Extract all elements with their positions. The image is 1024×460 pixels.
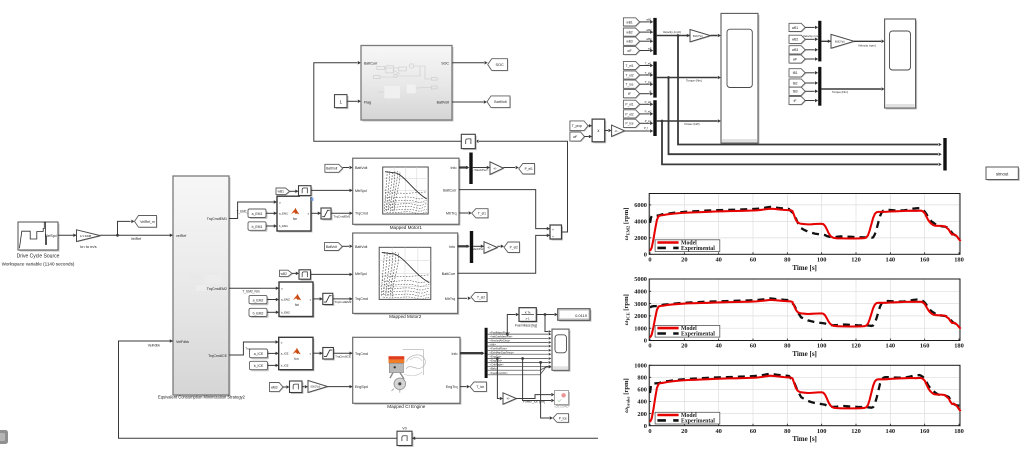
from tags wB1 wB2 wB3 wF (scope1 velocity inputs) <box>623 18 653 56</box>
subsystem Equivalent Consumption Minimization Strategy2 <box>158 176 246 399</box>
svg-text:1000: 1000 <box>634 325 647 332</box>
svg-text:80: 80 <box>784 428 790 435</box>
svg-text:1000: 1000 <box>634 362 647 369</box>
mux bar velocity scope2 <box>818 21 821 62</box>
svg-text:a_EM1: a_EM1 <box>279 212 288 216</box>
svg-text:<ExhManGasTemp>: <ExhManGasTemp> <box>490 350 515 354</box>
svg-text:T_el1: T_el1 <box>478 212 486 216</box>
mux bar power scope1 <box>653 100 656 136</box>
svg-text:P_f: P_f <box>644 126 648 130</box>
svg-text:kn to m/s: kn to m/s <box>80 244 96 249</box>
svg-text:BattVolt: BattVolt <box>355 166 367 170</box>
memory block after wB1 <box>299 186 314 201</box>
svg-text:TrqCmdICE: TrqCmdICE <box>335 355 351 359</box>
from tag wB1 <box>276 188 299 195</box>
svg-text:VelFdbk: VelFdbk <box>148 344 161 348</box>
svg-text:120: 120 <box>851 257 861 264</box>
from tags P_el1 P_el2 P_ice (scope1 power inputs) <box>623 100 653 128</box>
wire to ICE LOAD input 2 <box>521 357 554 402</box>
from tags tB1 tB2 tB3 tF (scope2 torque) <box>789 69 818 106</box>
display fuel mass value <box>536 309 591 333</box>
svg-text:P_el2: P_el2 <box>625 112 633 116</box>
svg-text:40: 40 <box>715 257 721 264</box>
svg-text:Velocity (mph): Velocity (mph) <box>663 30 681 34</box>
long wire power to mux terminator <box>662 121 942 166</box>
svg-text:Experimental: Experimental <box>681 332 715 338</box>
svg-text:TrqCmdEM1: TrqCmdEM1 <box>334 215 351 219</box>
svg-text:fcn: fcn <box>294 357 298 361</box>
svg-text:P_ice: P_ice <box>626 122 634 126</box>
saturation block 3 <box>313 348 353 361</box>
goto tag SOC <box>488 59 509 71</box>
svg-text:T_el1: T_el1 <box>645 61 652 65</box>
svg-text:RefSpd: RefSpd <box>45 234 56 238</box>
svg-text:tF: tF <box>794 99 797 103</box>
wire TrqCmdEM2 from ECMS to fcn2 <box>229 286 279 293</box>
gain 60/(2*pi) scope1 <box>690 30 721 43</box>
wire sum to memory (battery current) <box>475 140 567 232</box>
svg-text:V0: V0 <box>402 427 406 431</box>
svg-text:EngTrq: EngTrq <box>446 385 458 389</box>
subsystem Battery <box>361 46 454 122</box>
svg-text:4000: 4000 <box>634 219 647 226</box>
svg-text:TrqCmdEM2: TrqCmdEM2 <box>335 300 352 304</box>
svg-text:Time [s]: Time [s] <box>792 435 817 443</box>
from tag wB3 <box>270 383 290 393</box>
mux bar torque scope1 <box>653 62 656 98</box>
svg-text:wB2: wB2 <box>646 28 652 32</box>
feedback wire VelFdbk from memory V0 <box>119 339 398 438</box>
svg-text:ωICE [rpm]: ωICE [rpm] <box>623 294 631 325</box>
svg-text:-K-: -K- <box>487 246 491 250</box>
svg-text:z-1: z-1 <box>526 317 530 321</box>
wire memory to battery BattCurr <box>314 61 462 141</box>
svg-text:P_el1: P_el1 <box>645 100 652 104</box>
svg-text:800: 800 <box>637 375 647 382</box>
svg-text:<FuelVolFlow>: <FuelVolFlow> <box>490 347 508 351</box>
taskbar icon bottom left <box>0 430 8 444</box>
wire torque to scope2 <box>821 87 884 94</box>
svg-text:b_EM2: b_EM2 <box>281 311 290 315</box>
svg-text:Mapped Motor1: Mapped Motor1 <box>390 225 423 230</box>
svg-text:40: 40 <box>715 343 721 350</box>
svg-text:wB3: wB3 <box>626 40 632 44</box>
plot omega_brake model vs experimental <box>623 362 964 443</box>
svg-text:<MechPwr>: <MechPwr> <box>471 247 485 251</box>
svg-text:wB3: wB3 <box>646 37 652 41</box>
svg-text:wB1: wB1 <box>626 20 632 24</box>
svg-text:velRef: velRef <box>176 234 186 238</box>
svg-text:wF: wF <box>573 135 577 139</box>
svg-text:BattVolt: BattVolt <box>326 245 337 249</box>
from tag a_ICE <box>250 349 279 359</box>
svg-text:T_ice: T_ice <box>645 80 652 84</box>
svg-text:ICE LOAD: ICE LOAD <box>554 405 569 409</box>
wire BattVolt out <box>452 100 487 104</box>
memory block after wB3 <box>290 381 309 394</box>
svg-text:-K-: -K- <box>506 397 510 401</box>
svg-text:P_el1: P_el1 <box>525 167 533 171</box>
svg-text:b_ICE: b_ICE <box>281 364 289 368</box>
svg-text:T_ice: T_ice <box>476 385 484 389</box>
svg-text:Velocity (rpm): Velocity (rpm) <box>858 43 876 47</box>
svg-text:BattCurr: BattCurr <box>443 188 457 192</box>
gain 60/(2*pi) scope2 <box>831 34 885 49</box>
svg-text:tB1: tB1 <box>793 71 798 75</box>
scope fuel signals <box>552 329 571 372</box>
svg-text:wF: wF <box>793 57 797 61</box>
svg-text:60/(2*pi): 60/(2*pi) <box>835 39 845 43</box>
svg-text:TrqCmd: TrqCmd <box>355 212 368 216</box>
svg-text:tF: tF <box>649 90 652 94</box>
saturation block 1 <box>311 208 353 221</box>
display ICE LOAD lamp <box>554 391 570 409</box>
svg-text:3000: 3000 <box>634 301 647 308</box>
saturation block 2 <box>313 293 353 306</box>
MATLAB function block fcn3 <box>279 337 315 371</box>
svg-text:tF: tF <box>628 92 631 96</box>
svg-text:180: 180 <box>954 343 964 350</box>
svg-text:Experimental: Experimental <box>681 246 715 252</box>
gain Power_ice <box>496 357 555 405</box>
svg-text:BattCurr: BattCurr <box>364 61 378 65</box>
svg-text:5000: 5000 <box>634 276 647 283</box>
MATLAB function block fcn1 <box>277 196 313 232</box>
svg-text:tB2: tB2 <box>793 81 798 85</box>
svg-text:0: 0 <box>648 428 651 435</box>
wire TrqCmdICE from ECMS to fcn3 <box>229 340 279 355</box>
constant 1 block <box>335 95 362 110</box>
svg-text:VelRef_m: VelRef_m <box>140 220 155 224</box>
goto tag BattVolt <box>487 96 511 109</box>
memory block battery current <box>461 134 477 150</box>
memory block after wB2 <box>299 270 312 281</box>
svg-text:120: 120 <box>851 428 861 435</box>
svg-text:wB2: wB2 <box>792 38 798 42</box>
from tag BattVolt (motor2) <box>325 243 353 252</box>
MATLAB function block fcn2 <box>279 282 315 318</box>
svg-text:-K-: -K- <box>615 129 619 133</box>
wire velRef with branch <box>100 220 173 241</box>
svg-text:wB2: wB2 <box>281 272 287 276</box>
wire power mux to scope1 <box>657 119 721 126</box>
svg-text:Experimental: Experimental <box>681 418 715 424</box>
from tag a_EM2 <box>249 295 279 305</box>
from tags T_el1 T_el2 T_ice tF (scope1 torque inputs) <box>623 61 653 98</box>
svg-text:60/(2*pi): 60/(2*pi) <box>311 385 321 389</box>
svg-text:60: 60 <box>750 343 756 350</box>
svg-text:<EngTrq>: <EngTrq> <box>490 355 502 359</box>
scope1 block <box>721 13 760 144</box>
svg-text:0: 0 <box>648 257 651 264</box>
wire TrqCmdEM1 from ECMS to fcn1 <box>229 200 277 218</box>
svg-text:VelRef: VelRef <box>131 237 141 241</box>
svg-text:TrqCmd: TrqCmd <box>355 352 368 356</box>
svg-text:Velocity (mph): Velocity (mph) <box>803 34 821 38</box>
from tag wF (product) <box>570 132 592 142</box>
mux bar torque scope2 <box>818 67 821 106</box>
svg-text:20: 20 <box>681 343 687 350</box>
svg-text:80: 80 <box>784 343 790 350</box>
svg-text:100: 100 <box>817 343 827 350</box>
svg-text:140: 140 <box>886 428 896 435</box>
svg-text:Info: Info <box>449 245 455 249</box>
from tag wB2 <box>280 270 300 277</box>
svg-text:<CrkAngle>: <CrkAngle> <box>490 363 505 367</box>
bus selector motor2 Info <box>458 231 473 263</box>
svg-text:Power (kW): Power (kW) <box>684 122 699 126</box>
svg-text:wF: wF <box>627 49 631 53</box>
gain MechPwr motor2 <box>471 242 504 254</box>
mux bar terminator right <box>943 138 946 171</box>
from tag T_prop <box>570 121 592 131</box>
goto tag T_ice <box>460 382 487 392</box>
svg-text:Torque [Nm]: Torque [Nm] <box>832 90 848 94</box>
svg-text:wB2: wB2 <box>626 31 632 35</box>
svg-text:fcn: fcn <box>295 303 299 307</box>
svg-text:1/1.9438: 1/1.9438 <box>80 234 92 238</box>
bus selector engine Info <box>460 328 488 378</box>
svg-text:tB3: tB3 <box>793 90 798 94</box>
source block Drive Cycle Source <box>2 222 75 266</box>
gain P_f <box>605 125 654 137</box>
svg-text:wB1: wB1 <box>646 18 652 22</box>
wire BattCurr motor2 to sum <box>458 234 550 274</box>
svg-text:T_ice: T_ice <box>626 83 634 87</box>
svg-text:4000: 4000 <box>634 289 647 296</box>
svg-text:60: 60 <box>750 428 756 435</box>
svg-text:a_ICE: a_ICE <box>281 352 289 356</box>
svg-text:20: 20 <box>681 257 687 264</box>
svg-text:0: 0 <box>648 343 651 350</box>
svg-text:T_el2: T_el2 <box>626 73 634 77</box>
svg-text:T_el1: T_el1 <box>626 64 634 68</box>
svg-text:TrqCmdICE: TrqCmdICE <box>208 354 227 358</box>
svg-text:0: 0 <box>644 338 647 345</box>
gain MechPwr motor1 <box>473 162 519 176</box>
svg-text:0: 0 <box>644 423 647 430</box>
svg-text:<Afr>: <Afr> <box>490 342 497 346</box>
svg-text:Flag: Flag <box>364 101 371 105</box>
svg-text:<IntkGasMassFlw>: <IntkGasMassFlw> <box>490 335 513 339</box>
long wire torque to mux terminator <box>669 78 942 156</box>
svg-text:160: 160 <box>920 257 930 264</box>
svg-text:b_EM1: b_EM1 <box>279 224 288 228</box>
from tag a_EM1 <box>248 209 277 219</box>
gain 60/(2*pi) engine speed <box>308 381 353 394</box>
svg-text:120: 120 <box>851 343 861 350</box>
svg-text:P_ice: P_ice <box>559 416 567 420</box>
svg-text:wB3: wB3 <box>271 385 278 389</box>
svg-text:simout: simout <box>996 172 1009 177</box>
from tag b_ICE <box>250 361 279 371</box>
svg-text:b_EM1: b_EM1 <box>252 225 263 229</box>
svg-text:BattCurr: BattCurr <box>442 272 456 276</box>
svg-text:VelFdbk: VelFdbk <box>176 340 189 344</box>
subsystem Mapped Motor1 <box>353 158 461 230</box>
svg-text:Fuel Mass [kg]: Fuel Mass [kg] <box>515 323 537 327</box>
svg-text:Time [s]: Time [s] <box>792 350 817 358</box>
svg-text:20: 20 <box>681 428 687 435</box>
product block <box>592 119 606 143</box>
svg-text:140: 140 <box>886 257 896 264</box>
svg-text:fcn: fcn <box>293 217 297 221</box>
wire to gain scope2 <box>803 34 831 43</box>
svg-text:180: 180 <box>954 257 964 264</box>
discrete integrator fuel mass <box>506 308 538 336</box>
gain kn to m/s (1/1.9438) <box>77 230 102 249</box>
svg-text:Equivalent Consumption Minimiz: Equivalent Consumption Minimization Stra… <box>158 394 246 399</box>
svg-text:-K-: -K- <box>493 166 497 170</box>
wire wB2 speed to Mapped Motor2 MtrSpd <box>311 273 353 277</box>
svg-text:wB3: wB3 <box>792 48 798 52</box>
svg-text:6000: 6000 <box>634 202 647 209</box>
svg-text:wB1: wB1 <box>792 26 798 30</box>
mux bar velocity scope1 <box>653 18 656 55</box>
wire velocity mux to gain and scope1 <box>657 30 690 37</box>
svg-text:T_EM2_Nm: T_EM2_Nm <box>242 290 259 294</box>
svg-text:T_el2: T_el2 <box>477 295 485 299</box>
svg-text:160: 160 <box>920 428 930 435</box>
svg-text:100: 100 <box>817 257 827 264</box>
svg-text:a_EM2: a_EM2 <box>281 298 290 302</box>
svg-text:2000: 2000 <box>634 235 647 242</box>
engine bus selector signal wires <box>488 330 552 375</box>
svg-text:400: 400 <box>637 399 647 406</box>
svg-text:b_EM2: b_EM2 <box>253 311 264 315</box>
svg-text:0.0119: 0.0119 <box>575 313 588 318</box>
svg-text:P_ice: P_ice <box>645 119 652 123</box>
svg-text:T_el2: T_el2 <box>645 71 652 75</box>
svg-text:b_ICE: b_ICE <box>254 364 264 368</box>
goto tag T_el2 <box>458 293 488 303</box>
svg-text:Power_ice [kW]: Power_ice [kW] <box>523 399 545 403</box>
svg-text:140: 140 <box>886 343 896 350</box>
svg-text:Mapped Motor2: Mapped Motor2 <box>389 314 422 319</box>
svg-text:<NrmlzdAirChrg>: <NrmlzdAirChrg> <box>490 339 511 343</box>
from tags wB1 wB2 wB3 wF (scope2 velocity) <box>789 23 818 64</box>
wire RefSpd to gain <box>58 234 77 238</box>
scope2 block <box>885 19 918 110</box>
svg-text:P_el2: P_el2 <box>510 246 518 250</box>
svg-text:Time [s]: Time [s] <box>792 264 817 272</box>
svg-text:BattVolt: BattVolt <box>494 100 506 104</box>
svg-text:T_prop: T_prop <box>572 124 582 128</box>
svg-text:<MechPwr>: <MechPwr> <box>474 168 489 172</box>
wire SOC <box>452 61 488 65</box>
to workspace simout <box>986 167 1020 181</box>
subsystem Mapped CI Engine <box>353 337 462 409</box>
svg-text:MtrTrq: MtrTrq <box>446 212 456 216</box>
svg-text:Mapped CI Engine: Mapped CI Engine <box>387 404 425 409</box>
svg-text:60/(2*pi): 60/(2*pi) <box>693 34 703 38</box>
from tag b_EM2 <box>249 308 279 318</box>
goto tag P_el2 <box>504 242 520 253</box>
svg-text:BattVolt: BattVolt <box>326 167 337 171</box>
svg-text:200: 200 <box>637 411 647 418</box>
svg-text:wF: wF <box>648 46 652 50</box>
goto tag P_el1 <box>519 164 536 175</box>
svg-text:P_el2: P_el2 <box>645 110 652 114</box>
svg-text:Torque (Nm): Torque (Nm) <box>686 78 702 82</box>
svg-text:MtrTrq: MtrTrq <box>445 297 455 301</box>
svg-text:60: 60 <box>750 257 756 264</box>
svg-text:Workspace variable (1140 seco: Workspace variable (1140 seconds) <box>2 261 75 266</box>
svg-text:wB1: wB1 <box>278 190 284 194</box>
goto tag P_ice <box>539 361 569 423</box>
svg-text:80: 80 <box>784 257 790 264</box>
from tag b_EM1 <box>248 222 277 232</box>
svg-text:100: 100 <box>817 428 827 435</box>
svg-text:Info: Info <box>451 166 457 170</box>
svg-text:EngSpd: EngSpd <box>355 385 368 389</box>
svg-text:BattVolt: BattVolt <box>437 101 449 105</box>
svg-text:Drive Cycle Source: Drive Cycle Source <box>17 254 60 260</box>
svg-text:BattVolt: BattVolt <box>355 245 367 249</box>
long wire velocity to mux terminator <box>678 36 942 147</box>
svg-text:TrqCmd: TrqCmd <box>355 297 368 301</box>
svg-text:MtrSpd: MtrSpd <box>355 272 367 276</box>
plot omega_ICE model vs experimental <box>623 276 964 358</box>
memory block V0 <box>397 427 598 448</box>
svg-text:P_el1: P_el1 <box>625 103 633 107</box>
from tag BattVolt (motor1) <box>325 164 353 173</box>
svg-text:a_EM2: a_EM2 <box>253 298 264 302</box>
svg-text:SOC: SOC <box>495 63 503 67</box>
svg-text:K Ts: K Ts <box>525 310 531 314</box>
svg-text:a_ICE: a_ICE <box>254 352 264 356</box>
wire BattCurr motor1 to sum <box>459 190 550 231</box>
svg-text:a_EM1: a_EM1 <box>252 212 263 216</box>
svg-text:600: 600 <box>637 387 647 394</box>
svg-text:2000: 2000 <box>634 313 647 320</box>
svg-text:+: + <box>552 228 554 232</box>
svg-text:MtrSpd: MtrSpd <box>355 189 367 193</box>
svg-text:0: 0 <box>644 252 647 259</box>
sum block battery current <box>550 225 563 241</box>
goto tag VelRef_m <box>135 216 158 229</box>
wire wB1 speed to Mapped Motor1 MtrSpd <box>311 189 353 193</box>
svg-text:TrqCmdEM2: TrqCmdEM2 <box>207 287 227 291</box>
svg-text:<FuelCnvtrOn>: <FuelCnvtrOn> <box>490 371 509 375</box>
svg-text:+: + <box>552 235 554 239</box>
svg-text:40: 40 <box>715 428 721 435</box>
wire torque mux to scope1 <box>657 76 721 83</box>
goto tag T_el1 <box>459 209 489 219</box>
svg-text:<EngSpd>: <EngSpd> <box>490 359 503 363</box>
plot omega_EM2 model vs experimental <box>623 194 964 272</box>
svg-text:TrqCmdEM1: TrqCmdEM1 <box>207 217 227 221</box>
svg-text:180: 180 <box>954 428 964 435</box>
subsystem Mapped Motor2 <box>353 233 460 319</box>
bus selector motor1 Info <box>459 153 473 185</box>
svg-text:160: 160 <box>920 343 930 350</box>
svg-text:Info: Info <box>452 352 458 356</box>
svg-text:SOC: SOC <box>441 61 449 65</box>
